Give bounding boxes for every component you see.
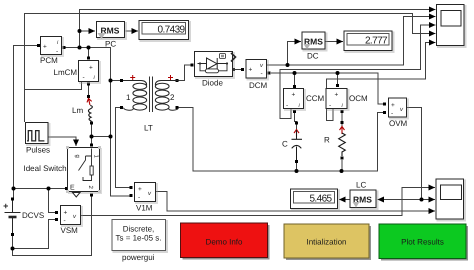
port DCVS - <box>11 233 14 236</box>
wire: pulses to switch gate <box>49 137 77 146</box>
wire: VSM output long line to scope2 in1 <box>81 188 436 216</box>
svg-text:Demo Info: Demo Info <box>206 238 243 247</box>
wire: DCVS+ node horizontal to switch E <box>14 188 67 190</box>
display 5.465 <box>291 189 340 210</box>
svg-text:OVM: OVM <box>389 119 408 128</box>
port LT primary + <box>120 79 123 82</box>
wire: Lm branch top stub <box>88 84 90 96</box>
wire: CCM signal hook around to scope in3 <box>280 25 436 119</box>
svg-text:g: g <box>74 155 80 158</box>
port diode cathode <box>232 68 235 71</box>
wire: OCM top stub <box>337 73 339 85</box>
port V1M - <box>130 194 133 197</box>
port switch 1 <box>90 144 93 147</box>
node LC-signal junction <box>420 198 424 202</box>
svg-text:OCM: OCM <box>349 94 368 103</box>
svg-text:+: + <box>64 210 68 217</box>
svg-text:2: 2 <box>170 93 175 102</box>
svg-text:LC: LC <box>356 181 366 190</box>
port DCM - <box>268 72 271 75</box>
node DC-signal tap <box>286 63 290 67</box>
port DCM + <box>241 68 244 71</box>
svg-text:DCM: DCM <box>249 81 268 90</box>
port switch E <box>65 187 68 190</box>
RMS block LC <box>350 181 378 210</box>
svg-text:-: - <box>391 110 393 117</box>
svg-text:powergui: powergui <box>122 253 155 262</box>
voltage measurement V1M <box>135 183 158 213</box>
svg-text:2.777: 2.777 <box>365 35 388 46</box>
wire: battery- down and bottom rail to switch 2 <box>13 196 92 256</box>
port VSM + <box>55 211 58 214</box>
port PCM out <box>63 46 66 49</box>
port R top <box>341 121 344 124</box>
wire: PCM input from DCVS+ node <box>14 46 39 200</box>
svg-text:+: + <box>292 92 296 99</box>
capacitor C (series branch, red arrow) <box>292 130 303 161</box>
svg-text:+: + <box>249 67 253 74</box>
svg-text:Ideal Switch: Ideal Switch <box>24 164 67 173</box>
powergui block <box>112 220 167 263</box>
wire: PCM out right, down at x110 to V1M- <box>64 48 131 197</box>
current measurement OCM <box>326 89 368 111</box>
port squares <box>11 44 386 236</box>
wire: node B horizontal <box>92 136 111 138</box>
RMS block DC <box>302 32 327 61</box>
svg-text:Plot Results: Plot Results <box>401 238 444 247</box>
node DCVS- junction <box>11 247 15 251</box>
scope 1 (top right) <box>437 5 466 48</box>
DC voltage source DCVS (battery) <box>4 201 21 234</box>
wire: primary top port stub <box>111 80 122 82</box>
inductor Lm (series branch, red arrow) <box>87 99 92 123</box>
svg-text:Diode: Diode <box>202 79 223 88</box>
voltage measurement OVM <box>389 98 409 128</box>
port C bottom <box>295 160 298 163</box>
wire: OVM out right and down <box>407 108 422 200</box>
display 2.777 <box>344 31 394 52</box>
wire: LmCM top stub <box>88 48 90 59</box>
svg-text:LT: LT <box>144 124 153 133</box>
node B junction <box>109 135 113 139</box>
svg-text:-: - <box>56 48 58 55</box>
wire: Lm bottom to node B and switch 1 <box>91 123 93 144</box>
svg-text:PC: PC <box>105 40 116 49</box>
wire: V1M output to scope2 in3 <box>156 192 435 212</box>
node PC-branch junction <box>78 29 82 33</box>
port LT secondary - <box>176 106 179 109</box>
svg-text:+: + <box>43 44 47 51</box>
wire: diode out to DCM <box>234 69 243 71</box>
svg-text:+: + <box>391 102 395 109</box>
node PCM-out junction <box>78 46 82 50</box>
wire: PCM signal up and top line to scope in1 <box>80 10 436 48</box>
node DCVS+ junction <box>12 187 16 191</box>
svg-text:Pulses: Pulses <box>26 146 50 155</box>
wire: CCM top stub <box>294 73 296 86</box>
wire: primary bottom to V1M+ <box>116 108 132 188</box>
svg-text:Ts = 1e-05 s.: Ts = 1e-05 s. <box>115 234 161 243</box>
svg-text:LmCM: LmCM <box>54 68 78 77</box>
svg-text:+: + <box>138 186 142 193</box>
node B (Lm/switch) <box>90 135 94 139</box>
button Plot Results <box>379 224 468 261</box>
node DC- rail R tap <box>340 169 344 173</box>
port C top <box>295 122 298 125</box>
svg-text:1: 1 <box>126 93 131 102</box>
port V1M + <box>130 186 133 189</box>
button Demo Info <box>181 223 270 260</box>
port DCVS + <box>11 198 14 201</box>
wire: OCM bottom to R branch <box>341 112 343 127</box>
wire: DC+ rail from DCM- to OVM+ <box>271 73 384 104</box>
svg-text:VSM: VSM <box>61 226 79 235</box>
node VSM+ tap <box>47 187 51 191</box>
wire: DCM signal branch up to RMS DC <box>288 42 302 66</box>
svg-text:-: - <box>138 194 140 201</box>
wire: stub below LmCM hook junction <box>24 90 26 123</box>
port LT primary - <box>120 106 123 109</box>
svg-text:-: - <box>286 102 288 109</box>
svg-text:-: - <box>261 71 263 78</box>
wire: LmCM signal hook left, up, along top to scope in4 <box>25 14 436 90</box>
port Lm bottom <box>90 122 93 125</box>
resistor R (series branch, red arrow) <box>339 127 346 157</box>
svg-text:CCM: CCM <box>306 94 325 103</box>
port R bottom <box>341 157 344 160</box>
node DC+ rail CCM tap <box>293 71 297 75</box>
scope 2 (bottom right) <box>436 179 465 221</box>
svg-text:0.7439: 0.7439 <box>158 24 186 35</box>
wire: C bottom to rail <box>296 160 298 171</box>
port VSM - <box>55 218 58 221</box>
port LmCM - <box>87 83 90 86</box>
node A (LmCM tap) <box>87 46 91 50</box>
pulse generator Pulses <box>26 123 51 155</box>
port CCM - <box>293 110 296 113</box>
current measurement PCM <box>40 37 63 66</box>
port OVM + <box>383 103 386 106</box>
wire: node to scope2 in2 <box>422 199 436 201</box>
svg-text:E: E <box>70 185 75 192</box>
node DC+ rail OCM tap <box>336 71 340 75</box>
svg-text:PCM: PCM <box>40 56 58 65</box>
svg-text:+: + <box>89 65 93 72</box>
svg-text:-: - <box>64 218 66 225</box>
wire: RMS PC out to display <box>126 30 139 32</box>
svg-text:Intialization: Intialization <box>306 238 346 247</box>
wire: secondary top to diode <box>177 65 192 81</box>
wire: DCM v signal line to scope in2 <box>267 17 436 66</box>
svg-text:C: C <box>282 140 288 149</box>
button Intialization <box>284 224 371 260</box>
current measurement LmCM <box>54 61 101 84</box>
svg-text:V1M: V1M <box>136 204 153 213</box>
node DC- rail C tap <box>295 169 299 173</box>
svg-text:Lm: Lm <box>72 106 83 115</box>
wire: node left into RMS LC <box>378 199 422 201</box>
node primary-top <box>109 79 113 83</box>
current measurement CCM <box>284 89 325 111</box>
svg-text:+: + <box>335 92 339 99</box>
svg-text:-: - <box>83 74 85 81</box>
display 0.7439 <box>139 21 190 42</box>
wire: RMS LC out to display 5.465 <box>339 199 350 201</box>
RMS block PC <box>97 22 127 49</box>
wire: branch to RMS PC <box>80 30 96 32</box>
wire: VSM- to battery minus rail <box>13 220 57 249</box>
diode block <box>195 52 236 88</box>
svg-text:DCVS: DCVS <box>22 211 44 220</box>
port Lm top <box>87 95 90 98</box>
voltage measurement DCM <box>246 60 268 91</box>
wire: VSM+ from node <box>49 189 57 213</box>
svg-text:Discrete,: Discrete, <box>123 225 155 234</box>
port switch 2 <box>90 194 93 197</box>
port OCM + <box>336 84 339 87</box>
linear transformer LT <box>123 77 179 113</box>
port OCM - <box>341 110 344 113</box>
ideal switch block <box>66 146 101 197</box>
wire: RMS DC out to display <box>326 41 344 43</box>
wire: secondary bottom to output rail, up to OVM- <box>177 108 384 172</box>
port LT secondary + <box>176 79 179 82</box>
port diode anode <box>191 64 194 67</box>
port CCM + <box>293 85 296 88</box>
svg-text:R: R <box>324 136 330 145</box>
svg-text:DC: DC <box>307 52 319 61</box>
svg-text:5.465: 5.465 <box>309 193 332 204</box>
wire: OCM signal hook around to scope in5 <box>327 43 436 121</box>
port OVM - <box>383 111 386 114</box>
wire: CCM bottom to C branch <box>295 112 297 130</box>
port PCM in <box>37 44 40 47</box>
wire: R bottom to rail <box>341 160 343 171</box>
port LmCM + <box>87 57 90 60</box>
voltage measurement VSM <box>61 206 83 236</box>
svg-text:-: - <box>329 102 331 109</box>
